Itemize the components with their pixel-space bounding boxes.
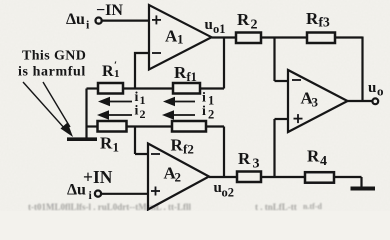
svg-text:2: 2 [251,18,258,33]
svg-text:+IN: +IN [83,167,113,187]
svg-text:1: 1 [177,32,184,47]
svg-text:R: R [171,136,184,155]
svg-text:i: i [202,104,206,119]
svg-text:R: R [238,149,251,168]
svg-text:f1: f1 [187,70,197,84]
svg-text:t-t01ML0flLlfs-l . ruL0drt--tM: t-t01ML0flLlfs-l . ruL0drt--tMrnL . tt-L… [28,202,191,211]
svg-text:R: R [306,9,319,28]
svg-text:u: u [368,80,376,96]
svg-text:R: R [307,147,320,166]
svg-text:2: 2 [175,170,182,185]
svg-text:Δu: Δu [67,182,86,199]
svg-text:2: 2 [208,108,214,122]
svg-text:is harmful: is harmful [18,65,86,80]
svg-text:t . tnLfL-tt: t . tnLfL-tt [255,202,297,211]
svg-text:1: 1 [114,68,120,80]
svg-text:R: R [174,63,187,82]
svg-text:1: 1 [113,140,120,155]
svg-text:f3: f3 [319,15,330,30]
svg-text:R: R [100,134,113,153]
svg-text:1: 1 [140,93,146,107]
svg-text:i: i [135,104,139,119]
svg-text:R: R [102,63,114,80]
svg-text:o2: o2 [222,186,235,200]
svg-text:f2: f2 [183,142,194,157]
svg-text:This GND: This GND [22,49,86,64]
svg-text:u: u [205,17,213,33]
svg-text:2: 2 [140,107,146,121]
svg-text:Δu: Δu [66,11,85,28]
svg-text:1: 1 [208,94,214,108]
svg-text:o1: o1 [213,22,226,36]
svg-text:3: 3 [253,157,260,172]
svg-text:4: 4 [320,154,327,169]
svg-text:n.tf-d: n.tf-d [303,202,322,211]
svg-text:o: o [377,84,384,99]
svg-text:−IN: −IN [96,2,123,19]
svg-text:R: R [237,10,250,29]
svg-text:3: 3 [312,95,319,110]
